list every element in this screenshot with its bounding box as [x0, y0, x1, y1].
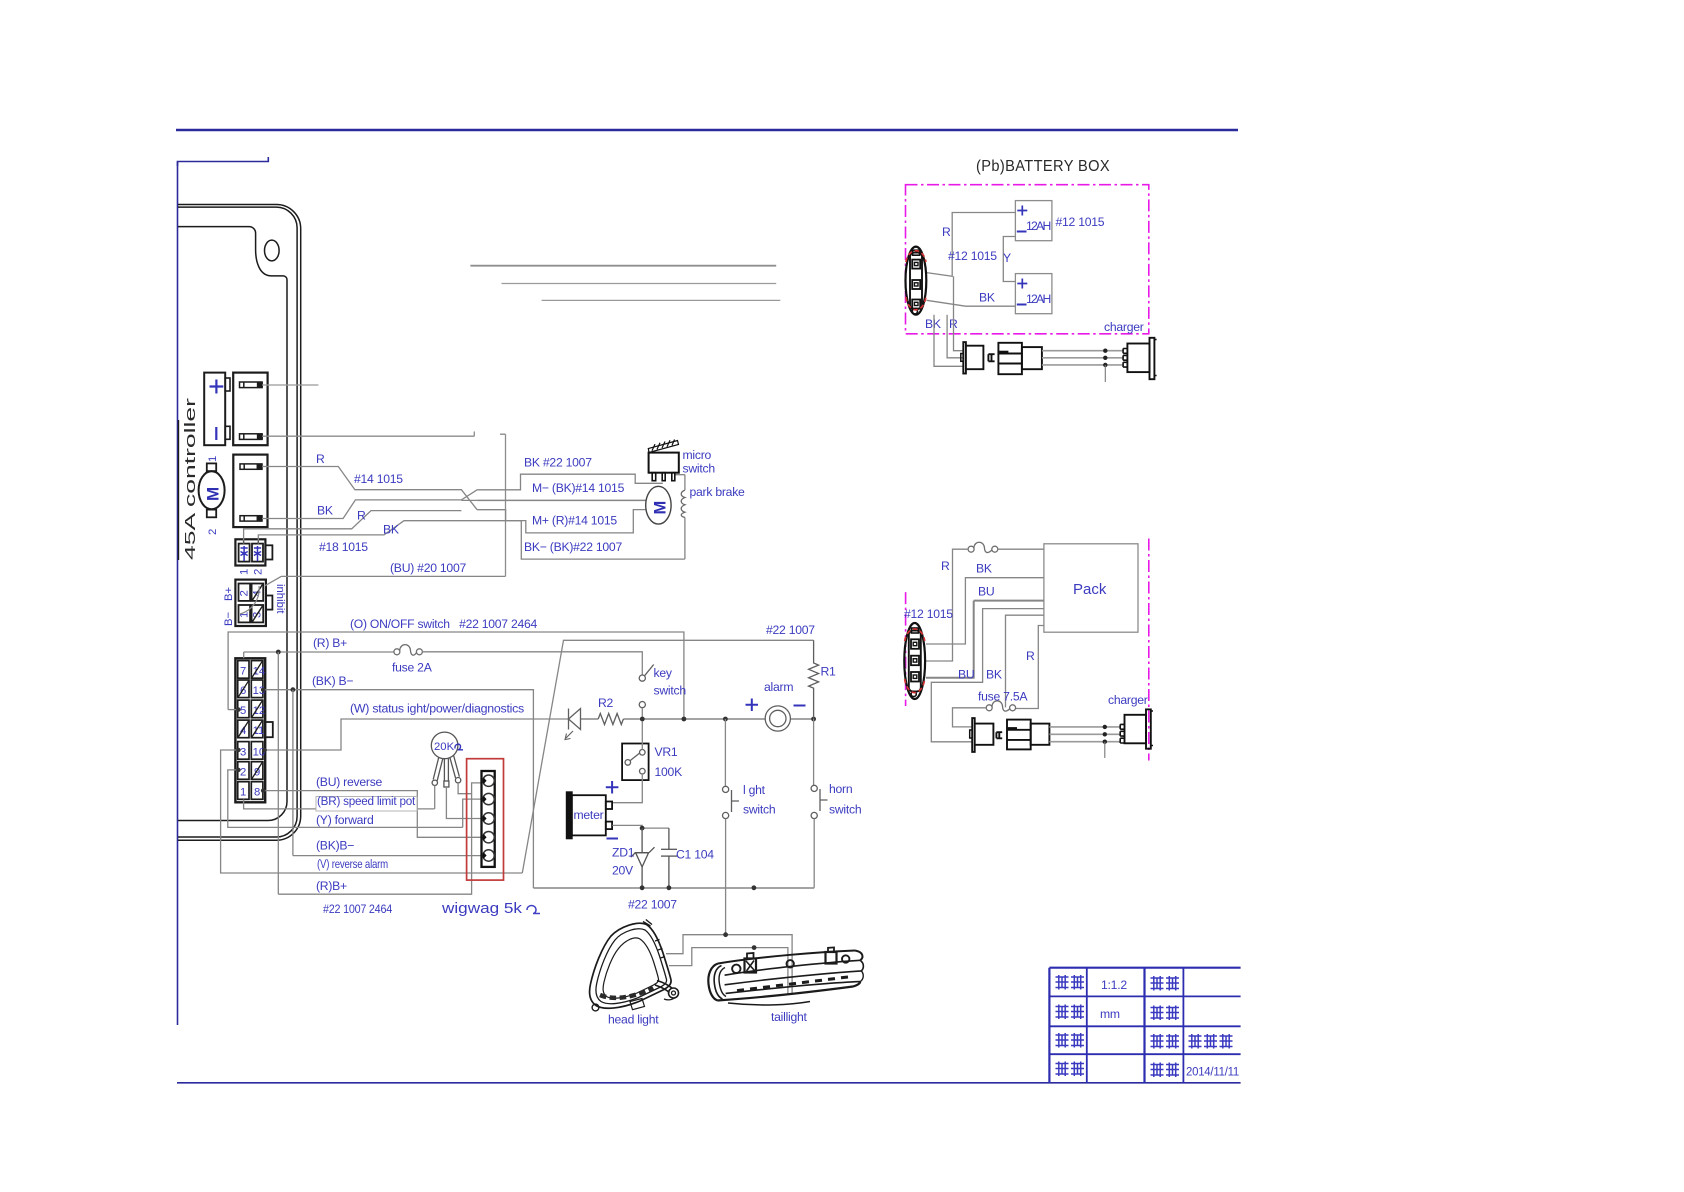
- pot right leg: [450, 756, 460, 779]
- wire aux stubs into 2pin cells: [244, 541, 259, 544]
- wire BKB- drop: [292, 690, 294, 856]
- main rail: [568, 718, 814, 720]
- wire Y link: [1003, 237, 1015, 282]
- svg-text:R2: R2: [598, 696, 614, 710]
- charger cable wires lower: [1049, 727, 1120, 742]
- micro switch legs: [652, 473, 675, 481]
- svg-text:BU: BU: [958, 668, 974, 682]
- svg-text:9: 9: [254, 767, 260, 779]
- svg-text:#12 1015: #12 1015: [904, 607, 953, 621]
- pin8 wire BU: [263, 791, 482, 838]
- wire B+ drop to lower: [277, 652, 279, 894]
- wire M- left tail: [461, 499, 477, 501]
- svg-text:3: 3: [240, 747, 246, 759]
- light switch drop: [724, 719, 726, 786]
- battery connector B box: [204, 373, 230, 446]
- wire BK pin1 chain: [926, 578, 1044, 644]
- taillight drawing: [708, 947, 863, 1005]
- pack magenta border right: [1148, 539, 1150, 761]
- pin13 dot: [261, 688, 265, 692]
- motor connector housing: [233, 455, 267, 527]
- dot W1: [723, 932, 728, 937]
- battery 2 box: [1015, 274, 1052, 314]
- battery 1 plus: [1017, 206, 1027, 216]
- battery connector oval: [906, 247, 927, 315]
- battery 1 box: [1015, 201, 1052, 241]
- svg-text:(Y) forward: (Y) forward: [316, 813, 374, 827]
- wire pot middle to c3: [446, 787, 481, 819]
- SEC-METER: [533, 722, 814, 912]
- dot W2: [752, 945, 757, 950]
- svg-text:7: 7: [240, 666, 246, 678]
- wire vertical B- drop: [500, 434, 506, 576]
- wire from plus pin stub: [262, 384, 318, 386]
- svg-text:2014/11/11: 2014/11/11: [1186, 1065, 1239, 1079]
- svg-text:BK #22 1007: BK #22 1007: [524, 456, 592, 470]
- svg-text:R: R: [1026, 649, 1035, 663]
- cell unit label: [1056, 1005, 1085, 1020]
- SEC-MOTOR: [524, 440, 745, 555]
- 14-pin numbers right column: [253, 666, 266, 799]
- wire from aux cell2 BK: [258, 521, 490, 544]
- meter body: [567, 792, 612, 838]
- svg-text:#22 1007: #22 1007: [766, 623, 815, 637]
- pack connector pins: [911, 639, 919, 681]
- alarm minus: [794, 705, 806, 707]
- wire BU #20 1007: [265, 576, 506, 585]
- pin5 wire: [228, 709, 238, 711]
- battery box magenta border: [906, 185, 1149, 334]
- SEC-PACK: [904, 539, 1153, 761]
- svg-text:switch: switch: [743, 803, 775, 817]
- left border vertical line: [177, 162, 179, 1026]
- motor pin slot top: [240, 464, 262, 469]
- svg-text:100K: 100K: [655, 765, 683, 779]
- svg-text:M: M: [204, 487, 223, 501]
- plug 2 upper: [988, 343, 1042, 374]
- frame hole circle: [265, 240, 280, 261]
- svg-text:(R)B+: (R)B+: [316, 879, 347, 893]
- charger wire drop R: [954, 276, 964, 350]
- svg-text:5: 5: [240, 705, 246, 717]
- inhibit tab: [266, 596, 273, 610]
- VR1 terminals: [625, 750, 645, 775]
- aux 2-pin tab: [265, 545, 272, 559]
- main 14-pin connector housing: [235, 658, 265, 802]
- scooter body outer edge line 1: [178, 205, 301, 841]
- LED symbol: [565, 709, 581, 740]
- motor symbol terminal 1: [207, 463, 216, 471]
- svg-text:2: 2: [239, 590, 251, 596]
- svg-text:20K: 20K: [434, 741, 455, 753]
- battery connector plus sign: [210, 380, 224, 394]
- charger wire dots lower: [1103, 725, 1107, 744]
- svg-text:R: R: [941, 559, 950, 573]
- charger wire drop mid: [947, 315, 963, 358]
- meter minus: [607, 838, 619, 840]
- svg-text:BK: BK: [383, 523, 399, 537]
- svg-text:#22 1007: #22 1007: [628, 898, 677, 912]
- wire pot right to c1: [458, 783, 482, 794]
- pot 20K body: [431, 732, 458, 759]
- cell draw label: [1151, 1034, 1180, 1049]
- R2 resistor: [598, 714, 623, 725]
- battery connector red dashes: [906, 251, 926, 310]
- SEC-WIGWAG: [431, 732, 503, 880]
- 45A controller underline: [178, 420, 180, 560]
- svg-text:M: M: [652, 501, 670, 515]
- battery 2 minus: [1017, 304, 1027, 306]
- svg-text:C1 104: C1 104: [676, 848, 714, 862]
- meter plus: [606, 781, 619, 794]
- 14-pin cells: [238, 661, 263, 800]
- SEC-LEFTWIRES: [244, 266, 781, 586]
- pot left leg: [433, 758, 443, 781]
- svg-text:ZD1: ZD1: [612, 846, 635, 860]
- svg-text:VR1: VR1: [655, 745, 678, 759]
- wire R from motor pin1: [262, 467, 477, 510]
- VR1 box: [622, 744, 649, 781]
- svg-text:#14 1015: #14 1015: [354, 472, 403, 486]
- wire from minus pin: [262, 432, 474, 437]
- svg-text:(V) reverse alarm: (V) reverse alarm: [317, 857, 388, 871]
- svg-text:BK: BK: [986, 668, 1002, 682]
- cell drawer name: [1189, 1034, 1233, 1049]
- horn switch: [811, 785, 827, 818]
- aux 2-pin cell 2: [252, 544, 263, 562]
- left border bracket horizontal: [178, 157, 269, 166]
- power pin slot bottom: [240, 434, 263, 440]
- 14-pin tab: [265, 722, 273, 737]
- pin1 wire BR: [244, 800, 435, 809]
- scooter inner panel outline with notch: [178, 227, 287, 821]
- park brake coil squiggle: [681, 490, 685, 517]
- svg-text:BK− (BK)#22 1007: BK− (BK)#22 1007: [524, 540, 622, 554]
- wire R pin2 chain: [926, 549, 968, 661]
- svg-text:BK: BK: [976, 562, 992, 576]
- wire BK bat2: [927, 300, 1016, 306]
- wire fuse to key switch: [422, 652, 642, 675]
- inhibit cell 1: [239, 605, 251, 622]
- motor symbol body: [199, 471, 225, 509]
- inhibit cell 3: [252, 605, 264, 622]
- aux cell1 glyph: [241, 546, 248, 561]
- svg-text:BK: BK: [979, 291, 995, 305]
- cell date label: [1151, 1063, 1180, 1078]
- inhibit internal arc: [240, 586, 259, 614]
- wire headlight W1: [666, 935, 792, 995]
- SEC-CONTROLLER: [179, 373, 287, 803]
- key switch to rail: [641, 708, 643, 719]
- svg-text:#18 1015: #18 1015: [319, 540, 368, 554]
- pot middle leg: [444, 759, 448, 781]
- aux 2-pin connector housing: [235, 539, 265, 565]
- wire BKB- to wigwag c5: [293, 855, 482, 857]
- svg-text:switch: switch: [683, 462, 715, 476]
- svg-text:2: 2: [253, 569, 265, 575]
- svg-text:taillight: taillight: [771, 1010, 808, 1024]
- svg-text:key: key: [654, 666, 673, 680]
- inhibit cell 2: [239, 584, 251, 601]
- svg-text:R1: R1: [821, 665, 837, 679]
- motor symbol terminal 2: [207, 510, 216, 518]
- pin5 dot: [236, 707, 240, 711]
- svg-text:micro: micro: [683, 448, 712, 462]
- aux cell2 glyph: [254, 546, 261, 561]
- cell material label: [1056, 1062, 1085, 1077]
- inhibit slash 3: [253, 606, 263, 622]
- svg-text:B+: B+: [223, 586, 235, 601]
- charger wire drop BK: [934, 315, 963, 367]
- charger wire dots upper: [1103, 349, 1107, 368]
- charger tail upper: [1104, 365, 1106, 382]
- svg-text:fuse 7.5A: fuse 7.5A: [978, 690, 1028, 704]
- svg-text:12AH: 12AH: [1026, 219, 1051, 233]
- cell scale label: [1056, 975, 1085, 990]
- svg-text:inhibit: inhibit: [274, 584, 286, 614]
- pack stub6 chain: [1016, 626, 1044, 709]
- charger cable wires upper: [1042, 351, 1123, 365]
- svg-text:20V: 20V: [612, 864, 634, 878]
- alarm symbol: [765, 706, 790, 731]
- SEC-FRAME: [178, 205, 301, 841]
- svg-text:Y: Y: [1003, 251, 1011, 265]
- svg-text:park brake: park brake: [690, 485, 746, 499]
- svg-text:wigwag 5k: wigwag 5k: [441, 900, 523, 917]
- VR1 wire top: [641, 722, 643, 750]
- svg-text:R: R: [316, 452, 325, 466]
- horn switch lower drop: [813, 819, 815, 888]
- wire BK from motor pin2: [262, 490, 477, 519]
- wire from aux cell1 R: [244, 511, 462, 544]
- svg-text:M− (BK)#14 1015: M− (BK)#14 1015: [532, 481, 625, 495]
- C1 capacitor: [661, 828, 677, 888]
- svg-text:charger: charger: [1108, 693, 1148, 707]
- wire R bat1: [927, 213, 1016, 277]
- svg-text:R: R: [942, 225, 951, 239]
- cell qty label: [1056, 1033, 1085, 1048]
- pin2 dot: [236, 768, 240, 772]
- 14-pin numbers left column: [240, 666, 246, 799]
- inhibit connector housing: [235, 580, 266, 626]
- wire BK- return jog: [490, 521, 685, 559]
- svg-text:R: R: [357, 509, 366, 523]
- charger receptacle lower: [1120, 709, 1153, 748]
- bottom rail dots: [640, 885, 757, 890]
- svg-text:1: 1: [239, 569, 251, 575]
- pack connector oval: [904, 623, 925, 699]
- SEC-BATTBOX: [906, 158, 1157, 382]
- svg-text:2: 2: [240, 767, 246, 779]
- fuse 2A symbol: [394, 645, 423, 655]
- note line 2: [502, 283, 777, 285]
- bottom border line: [177, 1082, 1241, 1084]
- svg-text:(O) ON/OFF switch #22 1007 2: (O) ON/OFF switch #22 1007 2464: [350, 617, 537, 631]
- svg-text:M+ (R)#14 1015: M+ (R)#14 1015: [532, 514, 617, 528]
- fuse7.5 left wire: [953, 708, 987, 727]
- R1 resistor: [809, 640, 819, 719]
- svg-text:12AH: 12AH: [1026, 292, 1051, 306]
- pack stub4 chain: [931, 609, 1044, 742]
- svg-text:switch: switch: [654, 684, 686, 698]
- wigwag red frame: [467, 759, 504, 880]
- pin2 wire left: [228, 770, 463, 828]
- SEC-TABLE: [1049, 968, 1240, 1083]
- svg-text:BK: BK: [925, 317, 941, 331]
- title block border: [1049, 968, 1240, 1083]
- plug 1 lower: [970, 718, 994, 752]
- junction dot meter wire: [640, 826, 645, 831]
- wigwag pin contacts: [483, 778, 487, 859]
- pin3 wire left: [221, 750, 523, 873]
- pack stub5 chain: [1006, 615, 1044, 707]
- svg-text:(Pb)BATTERY BOX: (Pb)BATTERY BOX: [976, 158, 1110, 175]
- svg-text:B−: B−: [223, 611, 235, 626]
- wire R B+ top: [244, 652, 394, 658]
- svg-text:1:1.2: 1:1.2: [1101, 978, 1127, 992]
- pin10 dot: [263, 748, 267, 752]
- wire M- to motor: [477, 499, 646, 501]
- battery 2 plus: [1017, 279, 1027, 289]
- cell check label: [1151, 1006, 1180, 1021]
- plug 1 upper: [961, 342, 984, 373]
- cell confirm label: [1151, 976, 1180, 991]
- motor pin slot bottom: [240, 516, 262, 521]
- junction dots rail: [640, 717, 816, 722]
- SEC-LIGHTS: [590, 920, 864, 1027]
- wigwag pin circles: [483, 775, 494, 861]
- svg-text:8: 8: [254, 787, 260, 799]
- battery connector pins: [912, 260, 920, 309]
- motor M circle: [646, 486, 671, 524]
- micro switch body: [649, 453, 679, 473]
- svg-text:Pack: Pack: [1073, 581, 1107, 598]
- svg-text:(R) B+: (R) B+: [313, 636, 347, 650]
- svg-text:1: 1: [207, 456, 219, 462]
- inhibit slash 4: [253, 585, 263, 601]
- scooter body outer edge line 2: [178, 207, 297, 837]
- svg-text:10: 10: [253, 747, 266, 759]
- controller power pin housing: [233, 373, 267, 446]
- charger tail lower: [1104, 742, 1106, 758]
- svg-text:#12 1015: #12 1015: [1056, 215, 1105, 229]
- pack magenta border left: [905, 592, 907, 706]
- svg-text:(BU) #20 1007: (BU) #20 1007: [390, 561, 466, 575]
- light switch lower drop: [725, 819, 727, 935]
- alarm plus: [746, 699, 759, 712]
- wire RB+ bottom run: [278, 794, 471, 895]
- wigwag black housing: [482, 771, 495, 867]
- wire BK B-: [263, 690, 533, 888]
- horn switch drop: [813, 719, 815, 785]
- wire Y to wigwag c2: [463, 799, 482, 827]
- aux 2-pin cell 1: [239, 544, 250, 562]
- note line 3: [542, 299, 781, 301]
- pack main fuse: [968, 542, 998, 552]
- park brake coil wire: [675, 475, 685, 559]
- micro switch lever: [648, 440, 678, 453]
- top border line: [176, 129, 1238, 132]
- wire M+ jog path to motor: [477, 510, 646, 533]
- wire V reverse alarm diagonal: [522, 640, 813, 873]
- battery 1 minus: [1017, 231, 1027, 233]
- pack box: [1044, 544, 1138, 632]
- svg-text:fuse 2A: fuse 2A: [392, 661, 433, 675]
- svg-text:switch: switch: [829, 803, 861, 817]
- 14-pin slashes: [238, 661, 262, 778]
- ZD1 zener: [631, 828, 655, 888]
- VR1 wire bottom to meter plus: [612, 774, 642, 803]
- svg-text:#12 1015: #12 1015: [948, 249, 997, 263]
- svg-text:alarm: alarm: [764, 680, 793, 694]
- svg-text:horn: horn: [829, 782, 852, 796]
- svg-text:charger: charger: [1104, 320, 1144, 334]
- svg-text:(W) status ight/power/diagnost: (W) status ight/power/diagnostics: [350, 702, 524, 716]
- wire ON/OFF switch: [228, 632, 684, 719]
- svg-text:2: 2: [207, 529, 219, 535]
- svg-text:BK: BK: [317, 504, 333, 518]
- wire BU pin3 chain: [926, 601, 1044, 678]
- inhibit cell 4: [252, 584, 264, 601]
- charger receptacle upper: [1123, 338, 1157, 379]
- svg-text:#22 1007 2464: #22 1007 2464: [323, 902, 392, 916]
- svg-text:1: 1: [240, 787, 246, 799]
- pin8 dot: [261, 788, 265, 792]
- wire BK to micro switch: [477, 474, 663, 490]
- pack connector red dashes: [905, 629, 925, 693]
- junction dot B+: [276, 650, 281, 655]
- note line 1: [470, 265, 776, 267]
- svg-text:head light: head light: [608, 1013, 659, 1027]
- key switch circles: [639, 665, 654, 708]
- wire pot left to BR: [434, 786, 436, 809]
- svg-text:(BK) B−: (BK) B−: [312, 674, 353, 688]
- svg-text:meter: meter: [574, 808, 604, 822]
- fuse 7.5A: [986, 701, 1015, 711]
- svg-text:(BU) reverse: (BU) reverse: [316, 775, 383, 789]
- wire fuse to pack: [998, 548, 1044, 550]
- junction dot BK B-: [291, 687, 296, 692]
- plug 2 lower: [996, 720, 1049, 750]
- wire headlight W2: [669, 948, 788, 994]
- svg-text:mm: mm: [1100, 1007, 1120, 1021]
- wire W status staircase: [265, 719, 568, 750]
- label BR speed limit pot box: [316, 797, 417, 812]
- light switch: [723, 786, 740, 818]
- svg-text:BU: BU: [978, 585, 994, 599]
- SEC-BORDERS: [176, 130, 1241, 1083]
- svg-text:(BK)B−: (BK)B−: [316, 839, 354, 853]
- power pin slot top: [240, 382, 263, 388]
- svg-text:l ght: l ght: [743, 783, 766, 797]
- bottom rail: [533, 887, 814, 889]
- pin3 dot: [236, 748, 240, 752]
- meter minus wire: [612, 825, 669, 828]
- SEC-CENTER: [221, 617, 862, 935]
- svg-text:(BR) speed limit pot: (BR) speed limit pot: [317, 794, 416, 808]
- battery connector minus sign: [215, 427, 217, 440]
- svg-text:45A controller: 45A controller: [183, 398, 199, 560]
- head light drawing: [590, 920, 679, 1011]
